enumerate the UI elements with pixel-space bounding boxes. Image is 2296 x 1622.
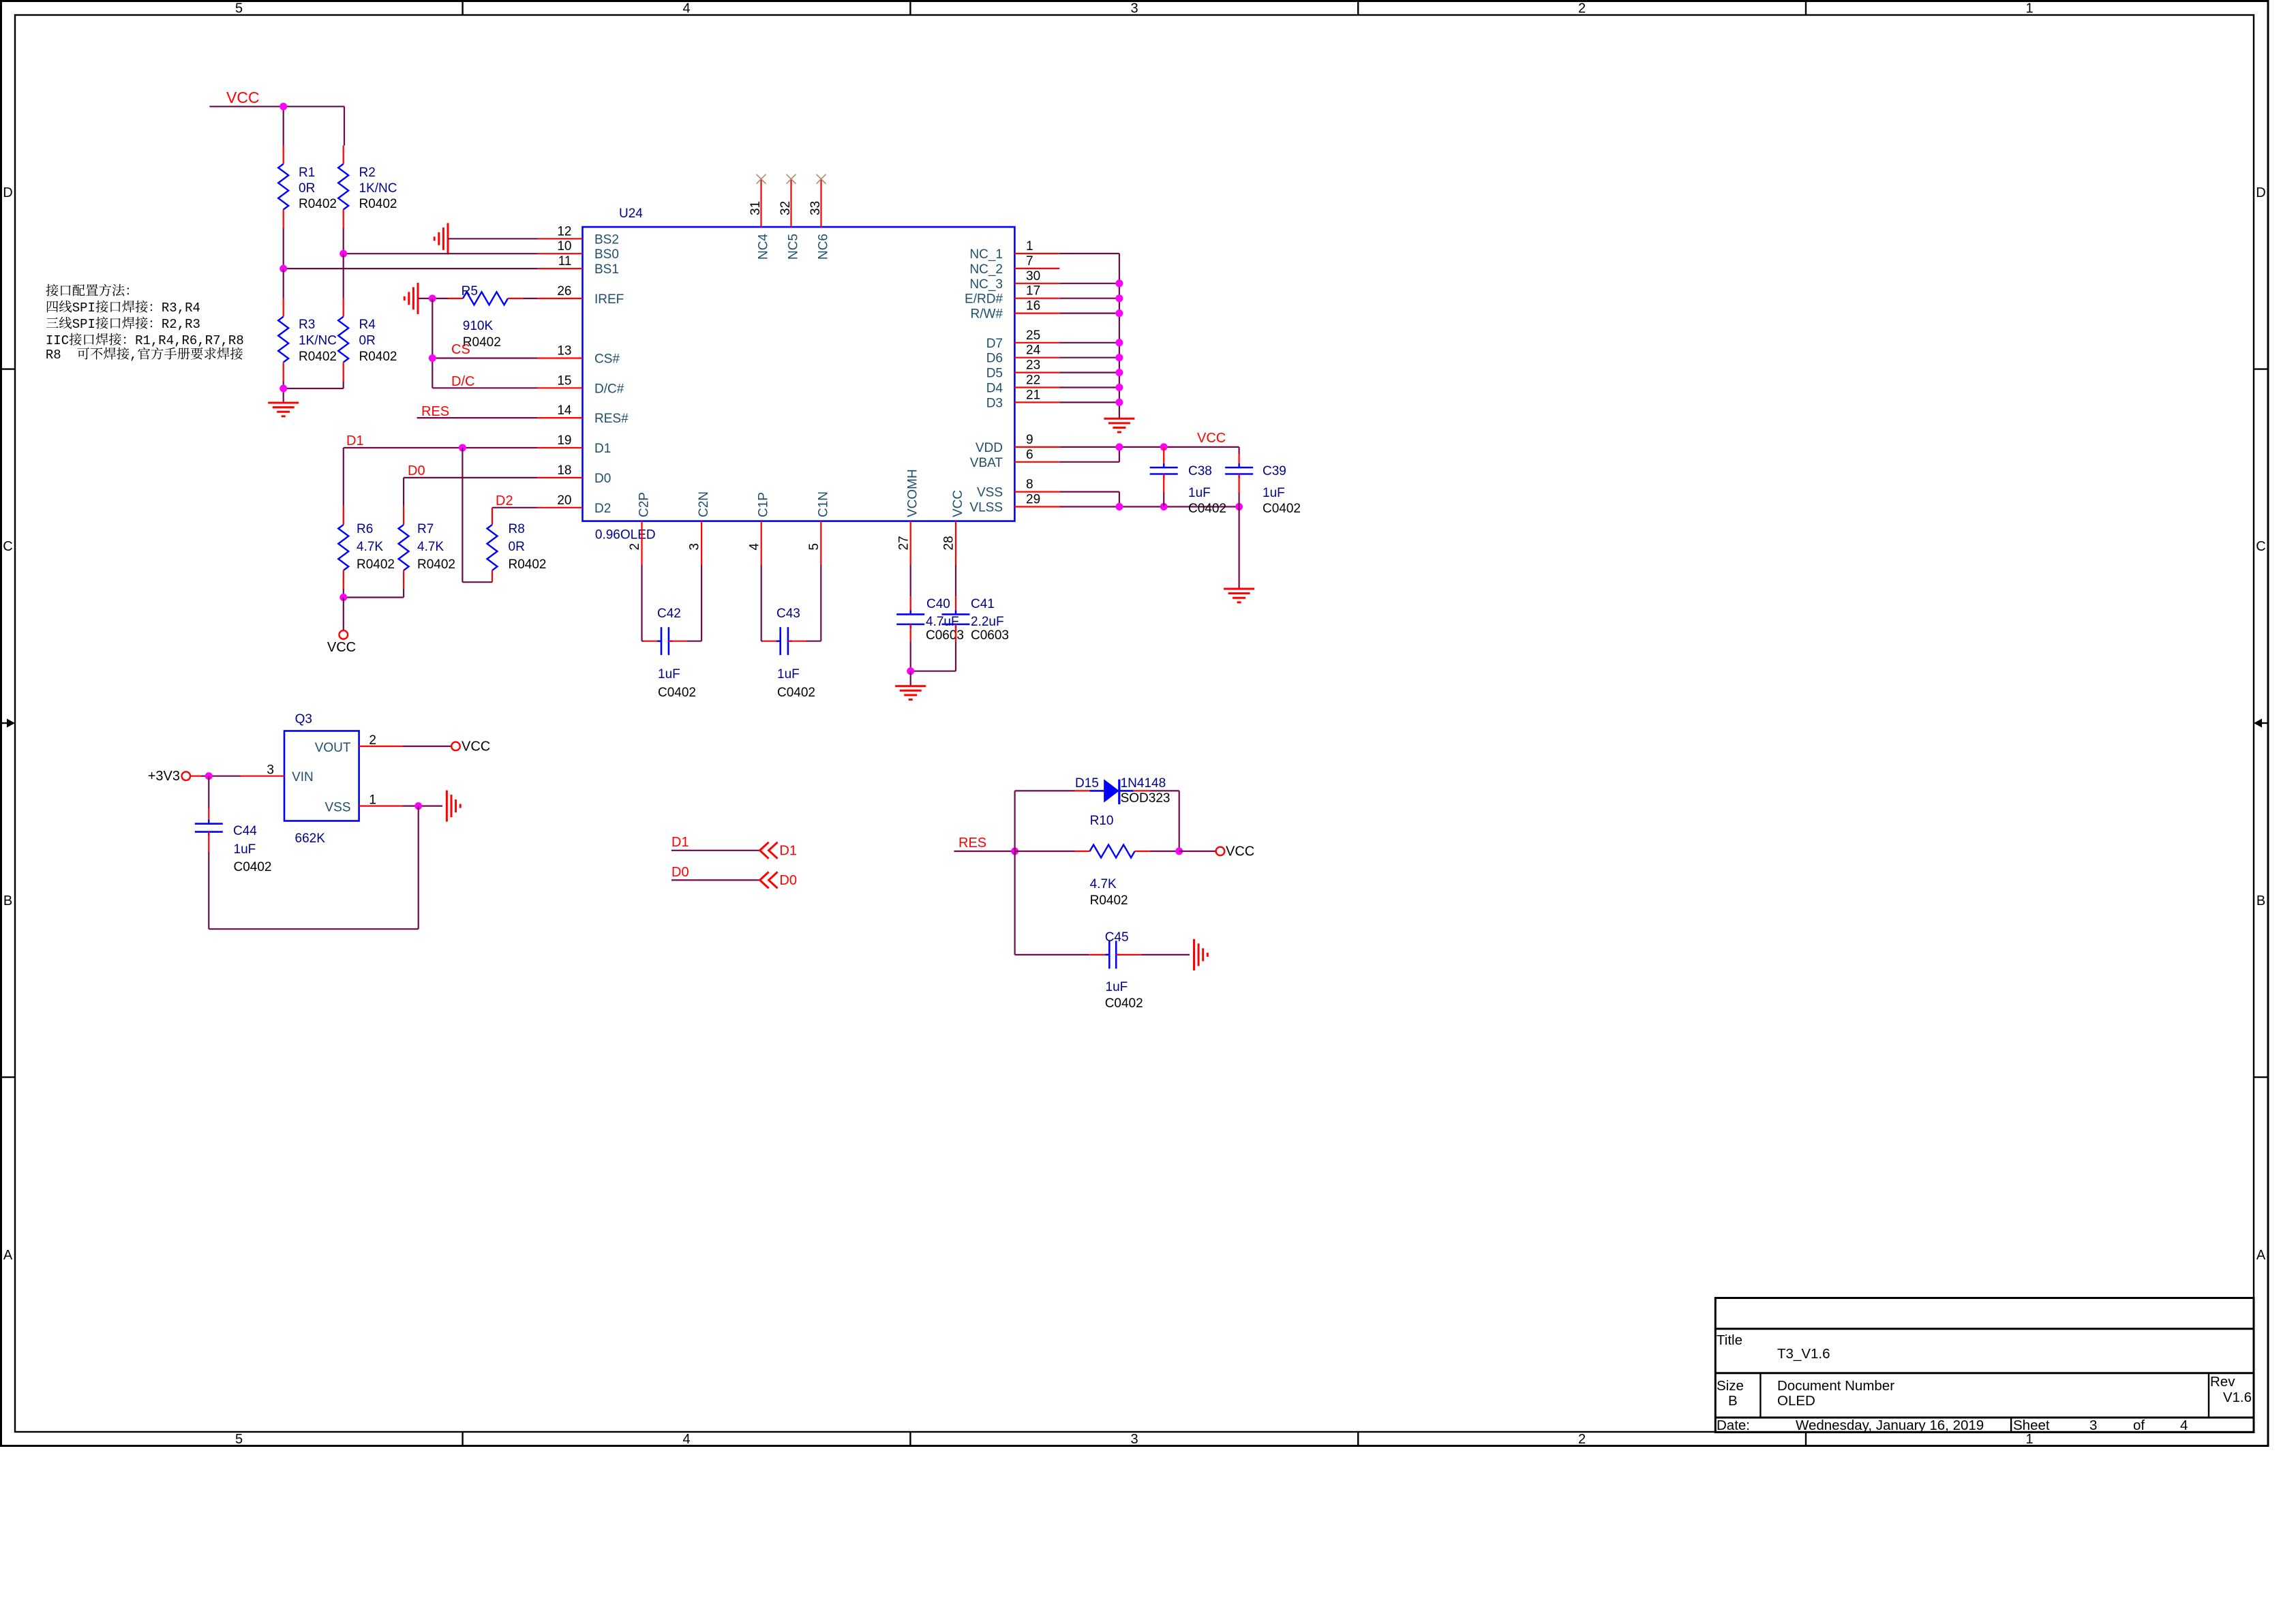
ground right of C45	[1194, 939, 1208, 970]
svg-text:C43: C43	[776, 607, 800, 621]
U24 pin 33 NC6 (no connect)	[809, 174, 831, 260]
svg-text:VOUT: VOUT	[315, 741, 351, 755]
svg-text:C1N: C1N	[816, 491, 830, 517]
wire BS0	[344, 253, 538, 254]
wire C44 bottom loop to VSS	[209, 806, 418, 930]
svg-text:SPI: SPI	[72, 301, 95, 316]
svg-text:C42: C42	[657, 607, 681, 621]
svg-text:IIC: IIC	[46, 333, 69, 348]
svg-text:R7: R7	[417, 522, 434, 536]
wire BS1	[284, 268, 538, 269]
ground below C39 rail	[1224, 589, 1254, 602]
capacitor C41 2.2uF C0603	[942, 564, 1010, 671]
svg-text:11: 11	[558, 254, 572, 269]
node BS1/R1/R3 junction	[280, 265, 287, 273]
capacitor C38 1uF C0402	[1150, 447, 1226, 516]
svg-text:R0402: R0402	[509, 557, 547, 572]
node VDD junction	[1115, 443, 1123, 450]
U24 pin 29 VLSS	[969, 493, 1059, 515]
svg-text:T3_V1.6: T3_V1.6	[1777, 1346, 1830, 1362]
U24 pin 23 D5	[986, 358, 1060, 381]
wire D15 right down to R10	[1179, 791, 1180, 851]
svg-text:VDD: VDD	[976, 441, 1003, 455]
svg-text:C0402: C0402	[1188, 502, 1226, 516]
ground at Q3 VSS	[447, 791, 460, 822]
resistor R1 0R R0402	[278, 146, 337, 228]
U24 pin 16 R/W#	[971, 299, 1060, 322]
svg-text:R5: R5	[462, 284, 478, 299]
svg-text:4.7uF: 4.7uF	[926, 615, 959, 629]
node RES junction	[1011, 848, 1018, 855]
svg-text:4: 4	[747, 543, 761, 551]
svg-text:D4: D4	[986, 382, 1003, 396]
node CS junction	[429, 354, 436, 362]
svg-text:Wednesday, January 16, 2019: Wednesday, January 16, 2019	[1796, 1418, 1984, 1433]
node VSS/C44 junction	[414, 802, 422, 810]
svg-text:R3,R4: R3,R4	[162, 301, 200, 316]
svg-text:D1: D1	[779, 844, 797, 859]
U24 pin 8 VSS	[977, 478, 1059, 500]
svg-text:32: 32	[779, 201, 793, 215]
U24 pin 25 D7	[986, 328, 1060, 351]
svg-text:D6: D6	[986, 352, 1003, 366]
resistor R5 910K R0402	[448, 284, 523, 350]
svg-text:D1: D1	[594, 442, 611, 456]
svg-text:R0402: R0402	[357, 557, 395, 572]
svg-text:25: 25	[1026, 328, 1040, 343]
svg-text:VCC: VCC	[1197, 431, 1226, 446]
U24 pin 31 NC4 (no connect)	[749, 174, 771, 260]
svg-text:D2: D2	[594, 502, 611, 516]
svg-text:C0402: C0402	[1105, 996, 1143, 1011]
svg-text:R6: R6	[357, 522, 373, 536]
wire left branch vertical	[1014, 791, 1015, 955]
wire to ground	[910, 671, 911, 686]
node +3V3/C44 junction	[205, 772, 213, 780]
annotation text block (interface configuration notes)	[46, 284, 244, 363]
svg-text:NC4: NC4	[757, 234, 771, 260]
svg-text:B: B	[2256, 893, 2265, 908]
capacitor C44 1uF C0402	[195, 776, 272, 930]
svg-text:BS0: BS0	[594, 247, 619, 262]
U24 pin 22 D4	[986, 373, 1060, 396]
wire RES	[417, 417, 538, 418]
node bus junction y=437.7	[1115, 294, 1123, 302]
power port VCC right of R10	[1179, 844, 1255, 859]
svg-text:C45: C45	[1105, 930, 1129, 945]
svg-text:R0402: R0402	[1090, 893, 1128, 908]
resistor R7 4.7K R0402	[399, 478, 455, 589]
node C39 bottom junction	[1235, 503, 1243, 510]
svg-text:C41: C41	[971, 597, 995, 611]
svg-text:R3: R3	[299, 318, 315, 332]
U24 pin 19 D1	[538, 433, 611, 456]
U24 pin 21 D3	[986, 388, 1060, 410]
svg-text:0.96OLED: 0.96OLED	[595, 528, 656, 542]
U24 pin 6 VBAT	[970, 448, 1060, 470]
svg-text:1uF: 1uF	[658, 667, 680, 682]
svg-text:V1.6: V1.6	[2223, 1390, 2252, 1405]
wire R3/R4 bottoms to ground	[284, 381, 344, 403]
node bus junction y=568.5	[1115, 384, 1123, 391]
svg-text:1K/NC: 1K/NC	[299, 334, 337, 348]
node R10/VCC junction	[1175, 848, 1183, 855]
svg-text:NC_3: NC_3	[969, 277, 1003, 292]
U24 pin 15 D/C#	[538, 373, 624, 396]
node R3/R4 ground junction	[280, 385, 287, 393]
svg-text:0R: 0R	[359, 334, 376, 348]
svg-text:4.7K: 4.7K	[1090, 877, 1117, 891]
svg-text:BS2: BS2	[594, 232, 619, 247]
svg-text:Q3: Q3	[295, 712, 312, 726]
diode D15 1N4148 SOD323	[1015, 776, 1179, 806]
svg-text:3: 3	[1130, 1432, 1138, 1447]
svg-text:1: 1	[2025, 1432, 2033, 1447]
off-page connector D0	[760, 872, 797, 888]
svg-text:D: D	[3, 185, 12, 200]
power port VCC below R6	[327, 598, 356, 656]
svg-text:+3V3: +3V3	[148, 769, 180, 784]
wire VSS/VLSS rail	[1059, 492, 1239, 507]
wire vertical to CS and D/C	[432, 299, 433, 388]
Q3 pin 1 VSS to ground	[359, 793, 442, 808]
U24 pin 5 C1N	[807, 491, 830, 564]
U24 pin 14 RES#	[538, 403, 629, 426]
svg-text:A: A	[3, 1248, 13, 1263]
resistor R3 1K/NC R0402	[278, 269, 337, 380]
ground at R5	[404, 283, 418, 314]
node C38 top junction	[1160, 443, 1168, 450]
svg-text:VCC: VCC	[226, 89, 260, 106]
title block	[1715, 1298, 2254, 1434]
svg-text:R1: R1	[299, 166, 315, 180]
svg-text:C2P: C2P	[637, 492, 652, 517]
svg-text:R4: R4	[359, 318, 376, 332]
U24 pin 20 D2	[538, 493, 611, 516]
ground below C40	[895, 686, 926, 700]
svg-text:D0: D0	[594, 472, 611, 486]
svg-text:24: 24	[1026, 343, 1041, 358]
svg-text:D2: D2	[496, 493, 513, 508]
svg-text:4.7K: 4.7K	[357, 540, 383, 554]
svg-text:C: C	[3, 539, 12, 554]
svg-text:B: B	[1728, 1393, 1738, 1409]
node BS0/R2/R4 junction	[339, 250, 347, 258]
node R6/R7 junction	[339, 594, 347, 601]
svg-text:C40: C40	[926, 597, 950, 611]
U24 pin 11 BS1	[538, 254, 619, 277]
svg-text:27: 27	[896, 536, 911, 550]
svg-text:C: C	[2256, 539, 2265, 554]
wire D1	[344, 447, 538, 448]
svg-text:Title: Title	[1717, 1332, 1742, 1348]
svg-text:R2,R3: R2,R3	[162, 317, 200, 332]
node IREF/CS vertical junction	[429, 294, 436, 302]
svg-text:1uF: 1uF	[1106, 980, 1128, 994]
ground at BS2 pin	[434, 223, 448, 254]
svg-text:16: 16	[1026, 299, 1040, 313]
svg-text:VCC: VCC	[1226, 844, 1254, 859]
svg-text:IREF: IREF	[594, 292, 624, 307]
svg-text:3: 3	[1130, 1, 1138, 16]
svg-text:5: 5	[235, 1432, 243, 1447]
svg-text:1: 1	[1026, 239, 1033, 254]
wire VDD/VBAT to VCC	[1059, 447, 1239, 462]
resistor R4 0R R0402	[338, 254, 397, 380]
svg-text:4: 4	[682, 1432, 690, 1447]
wire R6/R7 bottoms join	[344, 589, 404, 598]
svg-text:C0402: C0402	[658, 686, 696, 700]
svg-text:33: 33	[809, 201, 823, 215]
svg-text:OLED: OLED	[1777, 1393, 1815, 1409]
resistor R6 4.7K R0402	[338, 448, 395, 589]
U24 pin 28 VCC	[942, 490, 965, 565]
wire NC_1/NC_3/E-RD/R-W/D7..D3 bus	[1059, 254, 1119, 418]
svg-text:VCC: VCC	[327, 640, 356, 655]
svg-text:15: 15	[557, 373, 571, 388]
svg-text:1: 1	[2025, 1, 2033, 16]
svg-text:2: 2	[1578, 1, 1586, 16]
U24 pin 26 IREF	[538, 284, 624, 307]
U24 pin 2 C2P	[628, 492, 651, 564]
U24 pin 3 C2N	[688, 491, 711, 564]
U24 pin 9 VDD	[976, 433, 1059, 455]
wire R1 bottom to BS1	[283, 228, 284, 269]
svg-text:C0402: C0402	[1263, 502, 1301, 516]
svg-text:Rev: Rev	[2210, 1374, 2235, 1390]
svg-text:2: 2	[369, 733, 376, 748]
U24 pin 27 VCOMH	[896, 469, 920, 564]
svg-text:4: 4	[2180, 1418, 2188, 1433]
resistor R2 1K/NC R0402	[338, 146, 397, 228]
svg-text:Sheet: Sheet	[2013, 1418, 2050, 1433]
svg-text:17: 17	[1026, 284, 1040, 299]
svg-text:3: 3	[2089, 1418, 2097, 1433]
resistor R10 4.7K R0402	[1015, 814, 1179, 908]
svg-text:D3: D3	[986, 396, 1003, 410]
svg-text:VIN: VIN	[292, 770, 314, 784]
svg-text:C1P: C1P	[757, 492, 771, 517]
svg-text:,: ,	[130, 348, 137, 363]
svg-text:R0402: R0402	[299, 197, 337, 211]
node bus junction y=524.7	[1115, 354, 1123, 361]
node bus junction y=415.8	[1115, 279, 1123, 287]
svg-text:C0402: C0402	[234, 860, 272, 874]
resistor R8 0R R0402	[487, 508, 547, 582]
svg-text:21: 21	[1026, 388, 1040, 402]
svg-text:1: 1	[369, 793, 376, 808]
U24 pin 12 BS2	[538, 224, 619, 247]
svg-text:BS1: BS1	[594, 262, 619, 277]
svg-text:VSS: VSS	[977, 486, 1003, 500]
svg-text:D5: D5	[986, 367, 1003, 381]
wire R2 bottom to BS0	[343, 228, 344, 254]
svg-text:R0402: R0402	[359, 350, 397, 364]
svg-text:10: 10	[557, 239, 571, 254]
svg-text:18: 18	[557, 463, 571, 478]
svg-text:D/C#: D/C#	[594, 382, 624, 396]
svg-text:R0402: R0402	[299, 350, 337, 364]
svg-text:31: 31	[749, 201, 763, 215]
svg-text:1uF: 1uF	[1188, 486, 1211, 500]
off-page connector D1	[760, 842, 797, 859]
IC U24 SSD1306 OLED controller	[583, 206, 1015, 542]
svg-text:Document Number: Document Number	[1777, 1378, 1894, 1394]
svg-text:VCC: VCC	[462, 739, 490, 754]
svg-text:R0402: R0402	[359, 197, 397, 211]
U24 pin 7 NC_2	[969, 254, 1059, 277]
svg-text:SOD323: SOD323	[1121, 791, 1170, 806]
svg-text:14: 14	[557, 403, 572, 418]
svg-text:30: 30	[1026, 269, 1040, 284]
U24 pin 18 D0	[538, 463, 611, 486]
svg-text:910K: 910K	[463, 319, 494, 333]
svg-text:0R: 0R	[509, 540, 525, 554]
svg-text:D7: D7	[986, 337, 1003, 351]
svg-text:A: A	[2256, 1248, 2266, 1263]
svg-text:5: 5	[235, 1, 243, 16]
capacitor C45 1uF C0402	[1015, 930, 1190, 1011]
svg-text:19: 19	[557, 433, 571, 448]
U24 pin 32 NC5 (no connect)	[779, 174, 801, 260]
svg-text:NC6: NC6	[817, 234, 831, 260]
svg-text:D0: D0	[408, 463, 425, 478]
node bus junction y=502.8	[1115, 339, 1123, 346]
svg-text:4.7K: 4.7K	[417, 540, 444, 554]
svg-text:U24: U24	[619, 206, 643, 221]
svg-text:28: 28	[942, 536, 956, 550]
node C40 ground junction	[907, 667, 914, 675]
wire CS	[432, 357, 537, 358]
svg-text:1K/NC: 1K/NC	[359, 181, 397, 196]
svg-text:C39: C39	[1263, 464, 1286, 478]
svg-text:Date:: Date:	[1717, 1418, 1750, 1433]
svg-text:3: 3	[267, 763, 274, 778]
svg-text:D0: D0	[779, 873, 797, 888]
svg-text:NC_2: NC_2	[969, 262, 1003, 277]
wire R5 to IREF pin	[523, 298, 538, 299]
svg-text:NC_1: NC_1	[969, 247, 1003, 262]
svg-text:SPI: SPI	[72, 317, 95, 332]
svg-text:4: 4	[682, 1, 690, 16]
ground below R3/R4	[268, 403, 299, 416]
wire ground to R5	[418, 298, 448, 299]
wire VLSS to ground	[1238, 507, 1239, 590]
wire D2	[492, 507, 538, 508]
svg-text:R0402: R0402	[417, 557, 455, 572]
svg-text:5: 5	[807, 543, 821, 551]
svg-text:D1: D1	[671, 835, 689, 850]
node VLSS junction	[1115, 503, 1123, 510]
node D1/R8 junction	[459, 444, 466, 452]
Q3 pin 2 VOUT to VCC	[359, 733, 491, 754]
svg-text:R8: R8	[46, 348, 61, 363]
svg-text:NC5: NC5	[787, 234, 801, 260]
wire D0 to connector	[671, 879, 760, 881]
svg-text:1uF: 1uF	[234, 842, 256, 857]
regulator Q3 662K	[284, 712, 359, 846]
svg-text:8: 8	[1026, 478, 1033, 492]
U24 pin 30 NC_3	[969, 269, 1059, 292]
wire D0	[404, 477, 538, 478]
ground below data bus	[1104, 418, 1134, 432]
svg-text:D1: D1	[346, 433, 364, 448]
svg-text:C0603: C0603	[926, 628, 964, 643]
node bus junction y=459.6	[1115, 309, 1123, 317]
capacitor C40 4.7uF C0603	[896, 564, 964, 671]
svg-text:Size: Size	[1717, 1378, 1744, 1394]
wire VCC rail	[209, 106, 344, 145]
capacitor C42 1uF C0402	[642, 564, 702, 700]
svg-text:VBAT: VBAT	[970, 456, 1003, 470]
wire C40/C41 bottoms	[911, 671, 956, 672]
svg-text:2.2uF: 2.2uF	[971, 615, 1004, 629]
wire D1 to connector	[671, 850, 760, 851]
svg-text:RES#: RES#	[594, 412, 629, 426]
svg-text:R8: R8	[509, 522, 525, 536]
node VCC junction	[280, 103, 287, 110]
svg-text:7: 7	[1026, 254, 1033, 269]
svg-text:C0603: C0603	[971, 628, 1009, 643]
svg-text:R/W#: R/W#	[971, 307, 1003, 322]
svg-text:9: 9	[1026, 433, 1033, 447]
U24 pin 17 E/RD#	[965, 284, 1059, 307]
svg-text:R10: R10	[1090, 814, 1114, 828]
wire RES	[954, 851, 1014, 852]
node C38 bottom junction	[1160, 503, 1168, 510]
svg-text:20: 20	[557, 493, 571, 508]
svg-text:0R: 0R	[299, 181, 315, 196]
U24 pin 1 NC_1	[969, 239, 1059, 262]
svg-text:26: 26	[557, 284, 571, 299]
svg-text:D: D	[2256, 185, 2265, 200]
wire D1 junction down to R8 bottom	[462, 448, 492, 582]
svg-text:VCC: VCC	[951, 490, 965, 517]
svg-text:R1,R4,R6,R7,R8: R1,R4,R6,R7,R8	[135, 333, 244, 348]
svg-text:2: 2	[1578, 1432, 1586, 1447]
capacitor C39 1uF C0402	[1225, 454, 1301, 516]
svg-text:C44: C44	[233, 824, 257, 838]
svg-text:D0: D0	[671, 865, 689, 880]
svg-text:C0402: C0402	[777, 686, 815, 700]
U24 pin 10 BS0	[538, 239, 619, 262]
svg-text:662K: 662K	[295, 831, 326, 846]
svg-text:CS#: CS#	[594, 352, 620, 367]
Q3 pin 3 VIN from +3V3	[148, 763, 284, 784]
svg-text:R2: R2	[359, 166, 376, 180]
svg-text:D/C: D/C	[451, 374, 474, 389]
svg-text:1uF: 1uF	[777, 667, 800, 682]
svg-text:C38: C38	[1188, 464, 1212, 478]
svg-text:CS: CS	[451, 342, 470, 357]
svg-text:13: 13	[557, 344, 571, 358]
svg-text:1N4148: 1N4148	[1121, 776, 1166, 791]
svg-text:12: 12	[557, 224, 571, 239]
U24 pin 4 C1P	[747, 492, 770, 564]
node bus junction y=590.4	[1115, 399, 1123, 406]
node bus junction y=546.6	[1115, 369, 1123, 376]
svg-text:23: 23	[1026, 358, 1040, 373]
svg-text:VSS: VSS	[324, 801, 350, 815]
svg-text:6: 6	[1026, 448, 1033, 462]
svg-text:D15: D15	[1075, 776, 1099, 791]
svg-text:E/RD#: E/RD#	[965, 292, 1003, 307]
wire D/C	[432, 387, 537, 388]
svg-text:RES: RES	[421, 404, 449, 419]
U24 pin 13 CS#	[538, 344, 620, 367]
wire BS2	[448, 238, 538, 239]
svg-text:3: 3	[688, 543, 702, 551]
